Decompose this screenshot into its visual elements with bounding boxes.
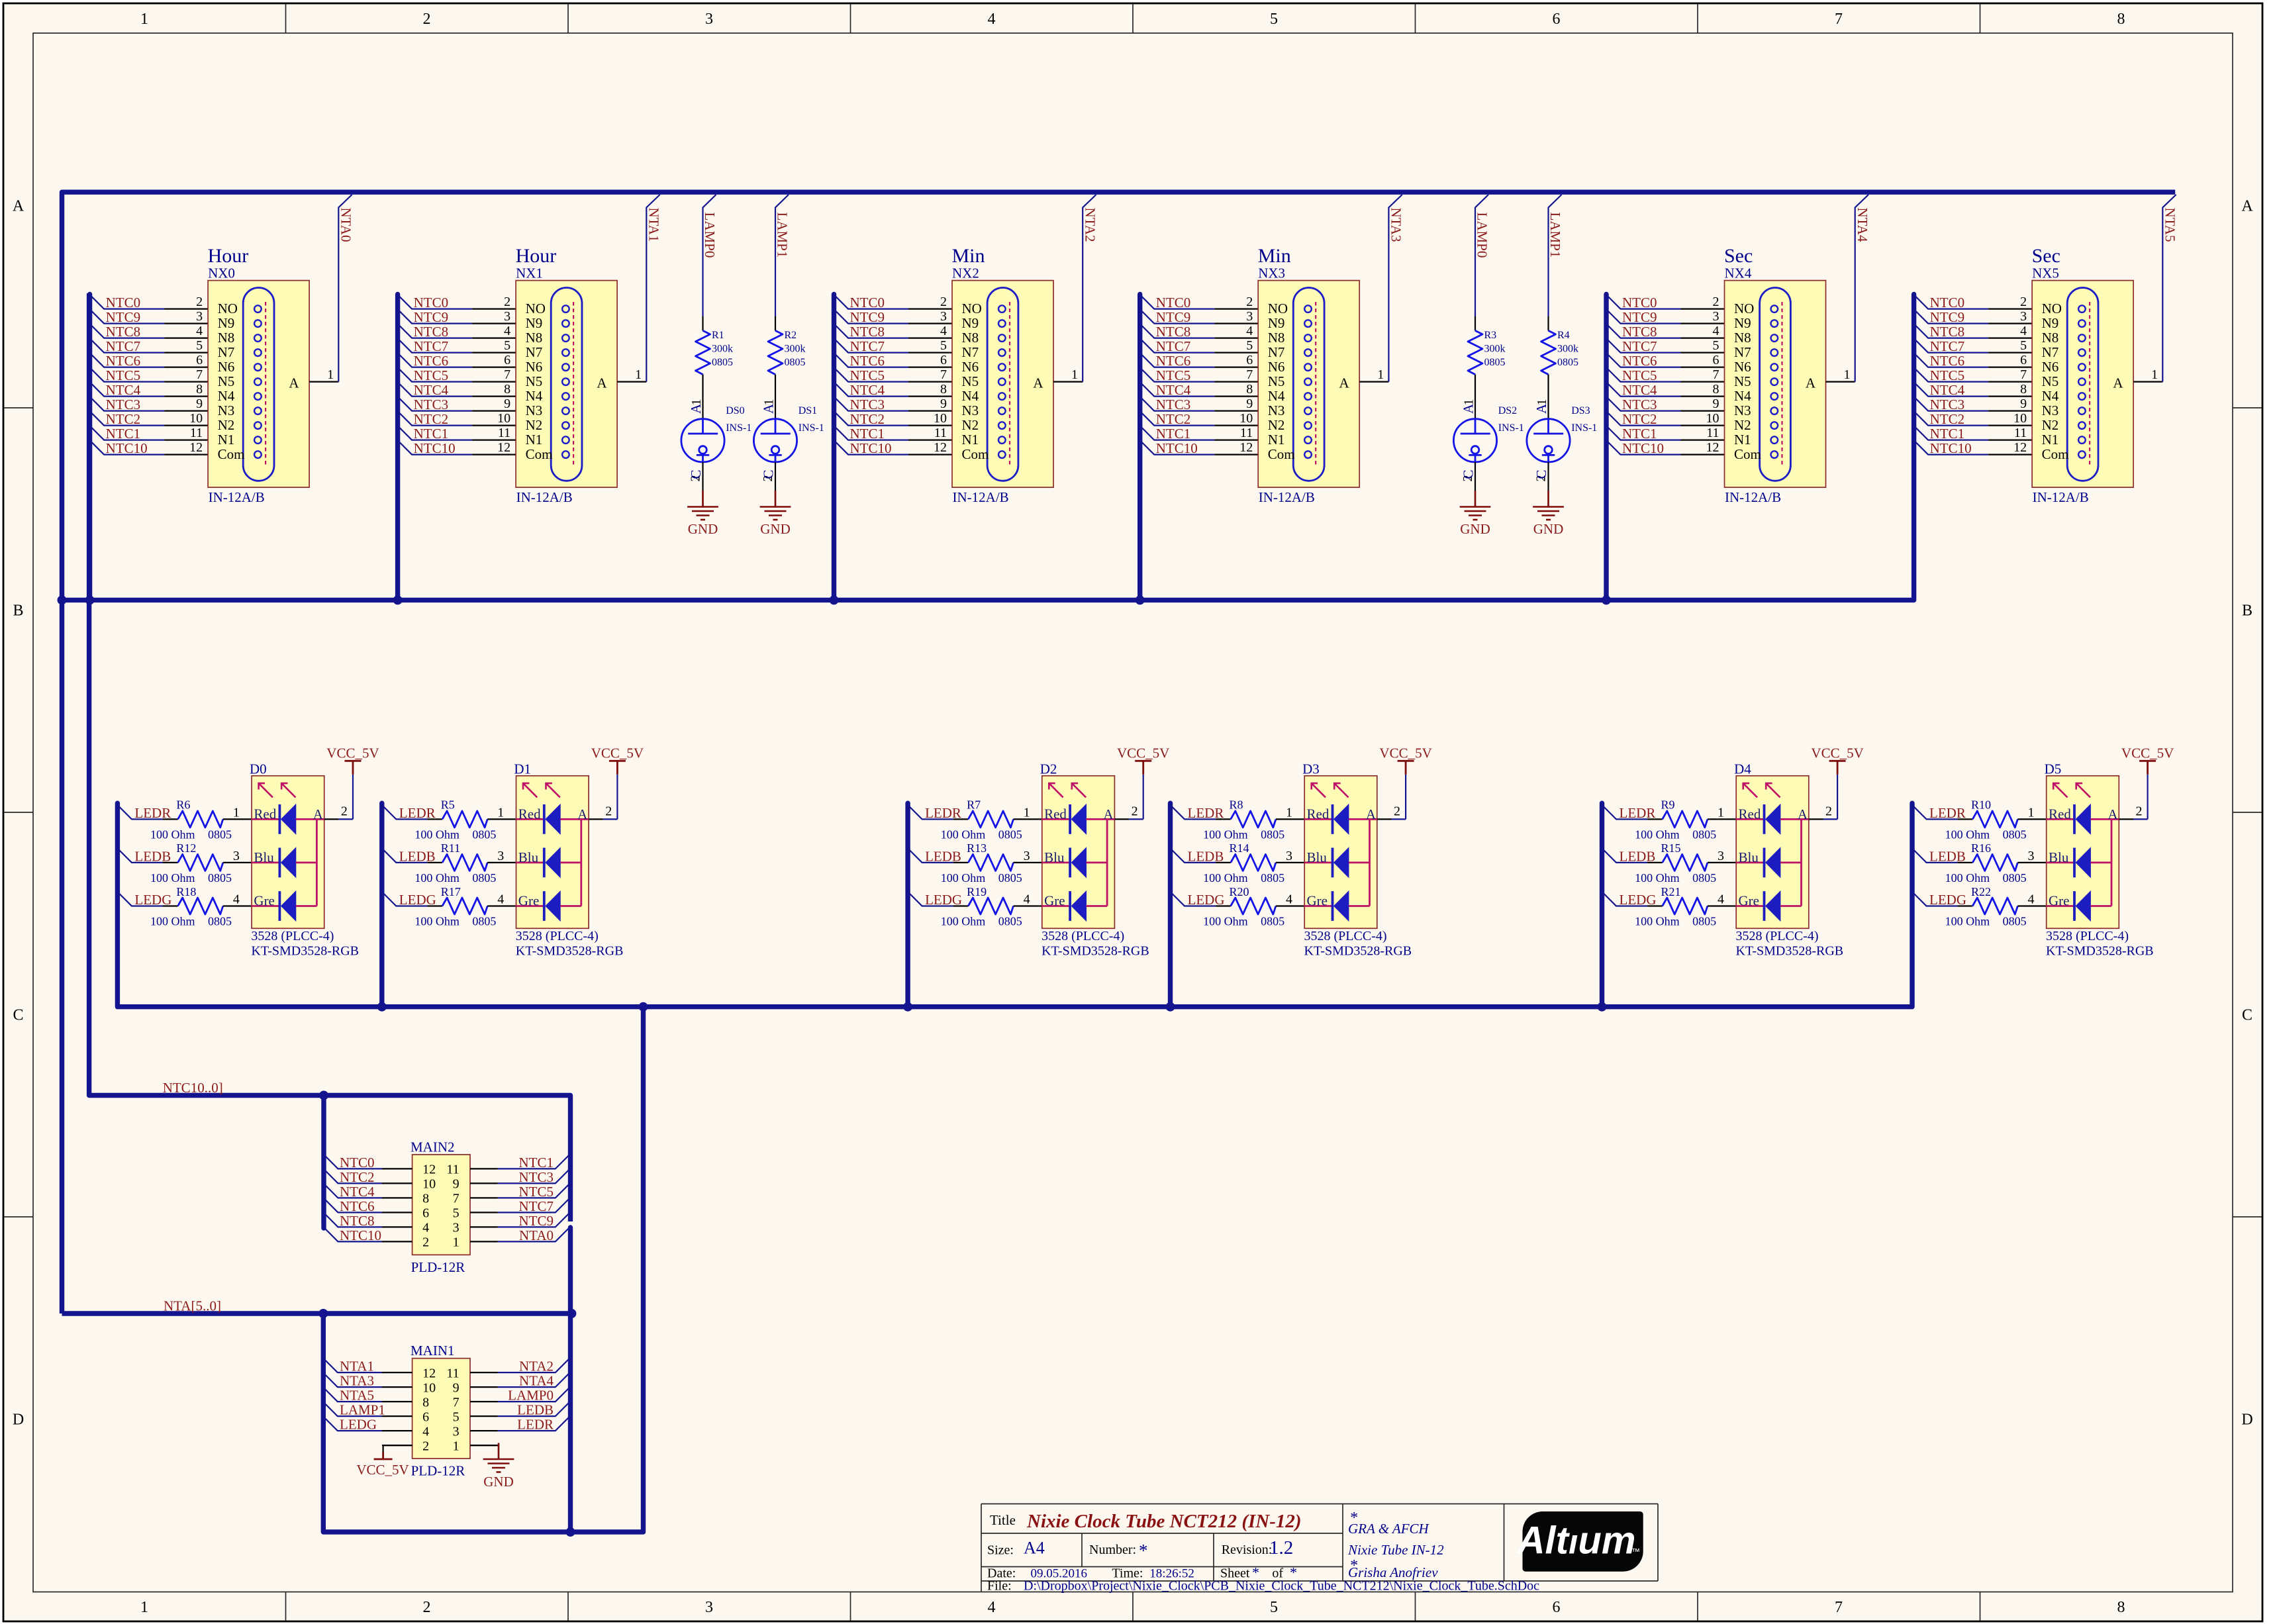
svg-text:NTA3: NTA3 [1388,208,1404,242]
svg-text:5: 5 [1270,1599,1278,1616]
svg-text:3: 3 [705,1599,713,1616]
svg-text:Number:: Number: [1089,1543,1136,1557]
svg-text:NTC10: NTC10 [340,1227,381,1243]
svg-text:DS0: DS0 [726,405,744,416]
svg-text:™: ™ [1631,1547,1640,1556]
svg-text:LAMP1: LAMP1 [774,213,790,258]
svg-text:Altıum: Altıum [1516,1519,1636,1562]
svg-text:LAMP1: LAMP1 [340,1402,385,1418]
svg-text:NTA5: NTA5 [340,1388,374,1404]
svg-text:Hour: Hour [208,245,249,267]
svg-text:Sec: Sec [1724,245,1753,267]
svg-text:D5: D5 [2045,761,2062,777]
svg-text:NTC9: NTC9 [519,1213,554,1229]
svg-text:NX4: NX4 [1725,265,1752,281]
svg-text:NTA[5..0]: NTA[5..0] [164,1298,221,1314]
svg-text:Nixie Tube IN-12: Nixie Tube IN-12 [1347,1542,1444,1558]
svg-text:R3: R3 [1484,330,1497,341]
svg-text:NX2: NX2 [952,265,979,281]
svg-text:VCC_5V: VCC_5V [356,1462,409,1478]
svg-text:Sec: Sec [2032,245,2060,267]
svg-text:Size:: Size: [987,1543,1014,1558]
svg-text:1: 1 [140,1599,148,1616]
svg-text:B: B [13,602,23,620]
svg-text:NX3: NX3 [1258,265,1285,281]
svg-text:NTC7: NTC7 [519,1198,554,1214]
svg-text:R21: R21 [1661,885,1681,898]
svg-text:Title: Title [990,1512,1016,1528]
svg-text:3: 3 [705,11,713,28]
svg-text:NTC0: NTC0 [340,1155,375,1170]
svg-text:MAIN1: MAIN1 [411,1343,455,1359]
svg-text:DS3: DS3 [1571,405,1590,416]
svg-text:D: D [13,1411,24,1429]
svg-text:NTC8: NTC8 [340,1213,375,1229]
svg-text:LAMP0: LAMP0 [1474,213,1490,258]
svg-text:NX5: NX5 [2032,265,2059,281]
svg-text:NTC4: NTC4 [340,1184,375,1200]
svg-text:Min: Min [1258,245,1291,267]
svg-text:D:\Dropbox\Project\Nixie_Clock: D:\Dropbox\Project\Nixie_Clock\PCB_Nixie… [1024,1579,1539,1594]
svg-text:LEDB: LEDB [517,1402,554,1418]
svg-text:NTA1: NTA1 [646,208,661,242]
svg-text:NTC1: NTC1 [519,1155,554,1170]
svg-text:NTA3: NTA3 [340,1373,374,1389]
svg-text:NTC2: NTC2 [340,1169,375,1185]
svg-text:NX0: NX0 [208,265,235,281]
svg-text:R10: R10 [1971,798,1991,812]
svg-text:7: 7 [1835,1599,1843,1616]
svg-text:8: 8 [2117,11,2125,28]
svg-text:Grisha Anofriev: Grisha Anofriev [1348,1564,1438,1580]
svg-text:*: * [1139,1541,1148,1560]
svg-text:NX1: NX1 [516,265,543,281]
svg-text:R11: R11 [441,841,460,855]
svg-text:NTC5: NTC5 [519,1184,554,1200]
svg-text:NTA5: NTA5 [2162,208,2178,242]
svg-text:C: C [13,1007,23,1024]
svg-text:DS1: DS1 [799,405,817,416]
svg-text:C: C [2242,1007,2252,1024]
svg-text:Hour: Hour [516,245,557,267]
svg-text:D0: D0 [250,761,267,777]
svg-text:NTA2: NTA2 [519,1359,554,1374]
svg-text:D: D [2241,1411,2252,1429]
svg-text:R18: R18 [176,885,196,898]
svg-text:R12: R12 [176,841,196,855]
svg-text:LAMP0: LAMP0 [508,1388,554,1404]
svg-text:7: 7 [1835,11,1843,28]
svg-text:R19: R19 [967,885,987,898]
svg-text:4: 4 [988,11,996,28]
svg-text:GRA & AFCH: GRA & AFCH [1348,1521,1430,1537]
svg-text:LAMP1: LAMP1 [1547,213,1563,258]
svg-text:A4: A4 [1024,1539,1045,1558]
svg-text:R13: R13 [967,841,987,855]
svg-text:D4: D4 [1734,761,1751,777]
svg-text:R22: R22 [1971,885,1991,898]
svg-text:R4: R4 [1557,330,1570,341]
svg-text:R9: R9 [1661,798,1675,812]
svg-text:R15: R15 [1661,841,1681,855]
svg-text:NTA1: NTA1 [340,1359,374,1374]
svg-text:D1: D1 [514,761,531,777]
svg-text:GND: GND [483,1474,514,1490]
svg-text:1: 1 [140,11,148,28]
svg-text:6: 6 [1553,11,1561,28]
svg-text:5: 5 [1270,11,1278,28]
svg-text:NTA4: NTA4 [1855,208,1870,242]
svg-text:Min: Min [952,245,985,267]
svg-text:R16: R16 [1971,841,1991,855]
svg-text:D2: D2 [1040,761,1057,777]
svg-text:8: 8 [2117,1599,2125,1616]
svg-text:2: 2 [423,11,431,28]
svg-text:R6: R6 [176,798,190,812]
svg-text:MAIN2: MAIN2 [411,1139,455,1155]
svg-text:2: 2 [423,1599,431,1616]
svg-text:DS2: DS2 [1498,405,1517,416]
svg-text:Revision:: Revision: [1222,1543,1273,1557]
svg-text:D3: D3 [1302,761,1320,777]
svg-text:1.2: 1.2 [1269,1537,1293,1558]
svg-text:R7: R7 [967,798,981,812]
svg-text:LAMP0: LAMP0 [702,213,718,258]
svg-text:NTC10..0]: NTC10..0] [163,1080,223,1096]
svg-text:R14: R14 [1230,841,1249,855]
svg-text:4: 4 [988,1599,996,1616]
svg-text:LEDR: LEDR [517,1417,554,1433]
svg-text:6: 6 [1553,1599,1561,1616]
svg-text:NTC3: NTC3 [519,1169,554,1185]
svg-text:Nixie Clock Tube NCT212 (IN-12: Nixie Clock Tube NCT212 (IN-12) [1026,1511,1302,1532]
svg-text:R17: R17 [441,885,461,898]
svg-text:NTA2: NTA2 [1082,208,1098,242]
svg-text:LEDG: LEDG [340,1417,377,1433]
svg-text:R20: R20 [1230,885,1249,898]
svg-text:File:: File: [987,1579,1012,1594]
svg-text:R5: R5 [441,798,455,812]
svg-text:A: A [13,198,24,215]
svg-text:NTC6: NTC6 [340,1198,375,1214]
svg-text:R1: R1 [712,330,724,341]
svg-text:A: A [2241,198,2253,215]
svg-text:B: B [2242,602,2252,620]
svg-text:R2: R2 [785,330,797,341]
svg-text:NTA4: NTA4 [519,1373,554,1389]
svg-text:NTA0: NTA0 [338,208,354,242]
svg-text:R8: R8 [1230,798,1243,812]
svg-text:NTA0: NTA0 [519,1227,554,1243]
